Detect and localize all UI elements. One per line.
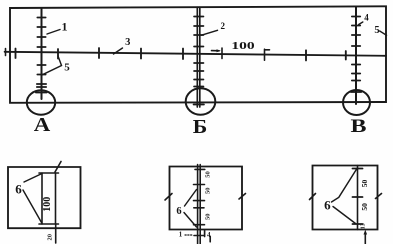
- leader for label 5 right: [380, 31, 387, 35]
- staff strip in square A: [42, 173, 56, 224]
- ticks on line V: [351, 17, 362, 93]
- svg-text:2: 2: [221, 21, 226, 31]
- circle B: [186, 88, 216, 114]
- ticks on line B: [194, 17, 205, 105]
- break slash on top edge of square A: [55, 162, 61, 173]
- ticks on rail line square V: [353, 169, 363, 225]
- svg-text:6: 6: [15, 181, 22, 196]
- leader for label 1: [47, 30, 60, 35]
- svg-text:5: 5: [64, 61, 70, 73]
- svg-text:5: 5: [374, 25, 379, 36]
- tiny dimension marks below square B: [205, 231, 211, 242]
- svg-text:100: 100: [231, 40, 255, 52]
- leaders for label 6 in square A: [23, 174, 42, 223]
- baseline end tick: [5, 49, 7, 56]
- svg-text:13: 13: [361, 223, 367, 229]
- break mark right edge square B: [239, 194, 246, 200]
- leader for label 4: [359, 22, 363, 25]
- svg-text:50: 50: [360, 180, 369, 188]
- svg-text:1: 1: [62, 20, 68, 34]
- detail square A: [8, 167, 81, 228]
- strip top tick: [39, 172, 59, 174]
- leaders for label 6 square B: [184, 190, 197, 228]
- baseline tick x58: [57, 49, 59, 59]
- circle A: [27, 90, 55, 114]
- leader for label 2: [202, 30, 218, 35]
- svg-text:50: 50: [205, 214, 212, 221]
- svg-text:50: 50: [205, 171, 212, 178]
- svg-text:А: А: [34, 114, 51, 136]
- baseline tick x346: [345, 51, 347, 60]
- detail square B: [170, 167, 243, 230]
- svg-text:100: 100: [42, 197, 53, 212]
- svg-text:6: 6: [324, 197, 331, 212]
- svg-text:В: В: [351, 116, 367, 137]
- svg-text:1: 1: [179, 231, 183, 239]
- svg-text:50: 50: [205, 187, 212, 194]
- baseline tick x99: [98, 48, 100, 58]
- arrow below square V: [364, 233, 366, 244]
- svg-text:Б: Б: [193, 116, 208, 138]
- leaders for label 6 square V: [332, 169, 357, 224]
- svg-text:3: 3: [125, 37, 130, 48]
- station line B (double): [197, 7, 200, 107]
- detail square V: [313, 166, 378, 230]
- ticks on line A: [36, 18, 47, 93]
- circle V: [343, 90, 370, 115]
- break mark left edge square B: [165, 194, 172, 201]
- leader for label 5 left: [43, 56, 62, 75]
- station line A: [41, 8, 43, 99]
- baseline tick x141: [140, 49, 142, 59]
- strip line extension below square A: [55, 224, 57, 243]
- rail double line square B: [198, 165, 201, 244]
- leader for label 3: [114, 48, 123, 54]
- svg-text:50: 50: [360, 203, 369, 211]
- ticks on rail line square B: [194, 169, 205, 235]
- svg-text:20: 20: [47, 234, 54, 241]
- station line V: [355, 7, 357, 104]
- svg-text:4: 4: [207, 231, 211, 239]
- svg-text:6: 6: [176, 206, 181, 217]
- baseline (horizontal axis line): [5, 52, 386, 56]
- main frame rectangle: [10, 6, 386, 103]
- baseline tick x15: [15, 49, 17, 59]
- baseline tick x306: [305, 50, 307, 60]
- rail line square V: [357, 166, 359, 230]
- svg-text:4: 4: [364, 13, 369, 23]
- dimension tick with hook right of 100: [265, 49, 270, 60]
- strip bottom tick: [39, 223, 59, 225]
- break mark right edge square V: [376, 194, 382, 199]
- baseline tick x183: [182, 49, 184, 60]
- break mark left edge square V: [310, 194, 316, 200]
- dimension tick with arrow left of 100: [212, 48, 223, 59]
